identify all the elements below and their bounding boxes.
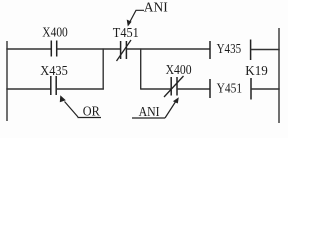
wire vertical connector x140.5 <box>140 48 142 89</box>
underline of bottom ANI label <box>132 117 165 119</box>
wire rung1 middle segment <box>57 48 121 50</box>
arrowhead of bottom ANI label <box>173 97 179 103</box>
svg-text:ANI: ANI <box>144 0 168 15</box>
contact T451 (NC) <box>121 41 127 59</box>
output Y451 right terminal bar <box>250 78 252 100</box>
leader line of bottom ANI label <box>165 101 176 118</box>
arrowhead of OR label <box>60 95 66 102</box>
wire X435 branch right segment <box>56 88 104 90</box>
wire X435 branch left segment <box>6 88 50 90</box>
underline of OR label <box>78 117 102 119</box>
svg-text:Y435: Y435 <box>217 42 242 57</box>
leader line of top ANI label <box>130 10 145 22</box>
slash of T451 NC contact <box>117 40 132 61</box>
svg-text:X400: X400 <box>42 25 68 40</box>
svg-text:X400: X400 <box>166 63 192 78</box>
slash of middle X400 NC contact <box>164 76 184 97</box>
svg-text:K19: K19 <box>245 64 267 79</box>
wire Y451 branch left segment <box>141 88 171 90</box>
leader line of OR label <box>65 102 79 118</box>
right power rail <box>278 28 280 123</box>
contact X400 (NC, middle) <box>171 77 177 96</box>
arrowhead of top ANI label <box>127 20 132 27</box>
wire Y451 branch right segment <box>177 88 210 90</box>
svg-text:X435: X435 <box>40 64 68 79</box>
svg-text:Y451: Y451 <box>217 82 243 97</box>
output Y435 left terminal bar <box>209 41 211 59</box>
wire Y435 output to right rail <box>251 49 280 51</box>
contact X400 (NO) <box>51 41 56 57</box>
left power rail <box>6 41 8 121</box>
svg-text:T451: T451 <box>113 26 139 41</box>
wire rung1 left segment <box>6 48 51 50</box>
wire Y451 output to right rail <box>251 88 280 90</box>
output Y451 left terminal bar <box>209 79 211 98</box>
wire vertical connector x103 <box>102 48 104 89</box>
output Y435 right terminal bar <box>250 40 252 61</box>
wire rung1 right segment <box>126 48 210 50</box>
contact X435 (NO) <box>51 76 56 95</box>
